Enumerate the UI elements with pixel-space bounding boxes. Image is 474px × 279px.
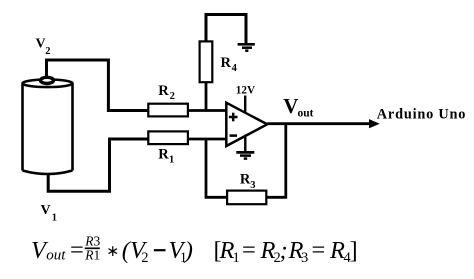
resistor R3 box: [227, 191, 266, 205]
resistor R4 label: [221, 55, 238, 74]
svg-text:V: V: [41, 203, 51, 218]
wire R2 to op-amp noninverting input: [188, 109, 226, 112]
svg-text:=: =: [312, 237, 326, 264]
svg-text:2: 2: [45, 46, 50, 57]
wire battery top (V2) to R2: [47, 60, 149, 111]
svg-text:1: 1: [52, 213, 57, 224]
svg-text:2: 2: [170, 91, 175, 102]
wire battery bottom (V1) to R1: [48, 139, 148, 191]
arrowhead: [369, 119, 380, 128]
svg-text:R3: R3: [84, 234, 100, 249]
node V1 label: [41, 203, 58, 224]
svg-text:V: V: [283, 94, 298, 118]
op-amp U1 triangle: [226, 103, 267, 146]
wire R4 top to ground: [206, 15, 246, 44]
svg-text:;: ;: [280, 237, 288, 264]
svg-text:1: 1: [233, 250, 240, 266]
svg-text:12V: 12V: [236, 84, 255, 96]
op-amp minus input marking: [230, 134, 238, 137]
svg-text:out: out: [298, 107, 314, 119]
svg-text:R: R: [158, 83, 169, 99]
svg-text:R: R: [240, 171, 251, 187]
resistor R2 box: [148, 104, 188, 117]
op-amp ground pin wire: [244, 135, 246, 152]
svg-text:V: V: [36, 36, 46, 51]
wire inverting input node down to R3: [206, 139, 227, 197]
formula Vout = R3/R1 * (V2 - V1): [31, 234, 193, 266]
svg-text:R: R: [158, 147, 169, 163]
battery B1 top button terminal: [41, 77, 54, 83]
svg-text:R1: R1: [84, 248, 100, 263]
formula [R1 = R2; R3 = R4]: [214, 237, 358, 267]
battery B1 body: [23, 80, 73, 175]
node Vout label: [283, 94, 313, 119]
ground symbol top: [238, 44, 255, 50]
svg-text:): ): [183, 237, 193, 264]
resistor R2 label: [158, 83, 175, 102]
svg-text:3: 3: [250, 180, 255, 191]
svg-text:=: =: [70, 237, 84, 264]
svg-text:3: 3: [301, 250, 308, 266]
resistor R3 label: [240, 171, 256, 190]
resistor R1 label: [158, 147, 174, 166]
formula fraction bar: [85, 247, 100, 249]
node V2 label: [36, 36, 51, 57]
wire R4 bottom to noninverting input node: [205, 82, 208, 111]
svg-text:]: ]: [350, 237, 358, 264]
svg-text:R: R: [221, 55, 232, 71]
svg-text:out: out: [46, 247, 66, 263]
svg-text:1: 1: [169, 155, 174, 166]
output wire to Arduino: [267, 122, 370, 125]
svg-text:Arduino Uno: Arduino Uno: [377, 107, 466, 123]
svg-text:4: 4: [232, 63, 238, 74]
wire R1 to op-amp inverting input: [188, 138, 226, 141]
op-amp power pin wire: [244, 96, 246, 114]
ground symbol under op-amp: [236, 152, 254, 158]
svg-text:=: =: [242, 237, 256, 264]
resistor R1 box: [148, 131, 188, 144]
resistor R4 box: [200, 41, 213, 82]
svg-text:∗: ∗: [106, 243, 119, 260]
svg-text:2: 2: [141, 250, 148, 266]
op-amp plus input marking: [229, 113, 238, 122]
wire R3 right up to output node: [266, 124, 286, 198]
